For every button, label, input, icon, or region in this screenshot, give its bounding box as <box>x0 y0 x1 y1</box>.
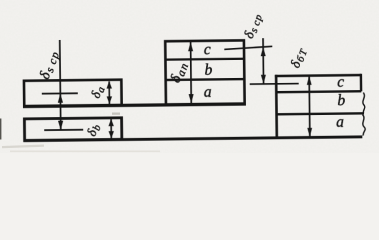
middle stack line under c <box>165 58 244 61</box>
delta-bt arrowhead down <box>307 128 312 137</box>
plate b centerline <box>44 129 83 131</box>
right dim arrowhead down (tip at c centerline ext) <box>261 75 266 84</box>
svg-text:a: a <box>204 84 212 101</box>
scan artifact smudge <box>112 113 120 115</box>
right stack b row break squiggle <box>363 93 365 113</box>
left dim shaft delta-s-cp <box>59 40 62 131</box>
right stack a row break squiggle <box>363 115 366 136</box>
middle stack c dash <box>224 46 272 49</box>
svg-text:c: c <box>204 41 211 58</box>
right stack line under b <box>277 112 364 115</box>
right dim arrowhead up (tip at c dash) <box>261 47 266 56</box>
left dim arrowhead down (at lower centerline) <box>58 121 63 130</box>
svg-text:b: b <box>337 92 345 109</box>
delta-bt arrowhead up <box>307 76 312 85</box>
delta-bt dim shaft <box>308 76 310 138</box>
middle stack delta-ap arrow shaft <box>190 42 192 104</box>
svg-text:c: c <box>337 74 344 91</box>
plate b (lower left bar) <box>24 118 121 141</box>
delta-b thickness arrow <box>110 119 112 138</box>
scan artifact left edge <box>0 119 1 140</box>
right dim shaft delta-s-cp (middle) <box>262 38 264 84</box>
right stack c centerline extension <box>250 83 299 86</box>
svg-text:b: b <box>204 62 212 79</box>
middle stack line under b <box>166 78 245 81</box>
delta-a thickness arrow <box>108 81 110 104</box>
plate a (upper left bar) <box>24 80 122 106</box>
right stack line under c + right edge of c <box>276 74 361 92</box>
delta-ap arrowhead down <box>189 94 194 103</box>
substrate line A (bar bottom to middle stack) <box>23 104 246 107</box>
bottom long line <box>23 137 362 141</box>
paper background <box>0 0 379 153</box>
right stack top edge <box>275 74 361 78</box>
scan artifact bottom smudge <box>2 145 44 149</box>
svg-text:a: a <box>336 114 344 131</box>
plate a centerline <box>42 92 78 94</box>
left dim arrowhead up (at upper centerline) <box>58 93 63 102</box>
right stack left edge <box>275 75 278 137</box>
delta-ap arrowhead up <box>188 42 193 51</box>
middle stack outline <box>165 40 244 104</box>
